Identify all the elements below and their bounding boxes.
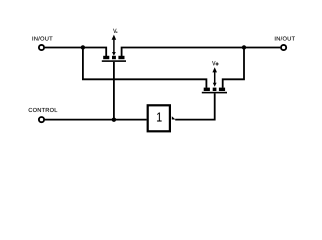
wire CONTROL to inverter input	[45, 119, 147, 121]
terminal CONTROL	[39, 117, 44, 122]
node C junction dot	[112, 118, 116, 122]
transistor Q1 bulk arrow to V-	[112, 35, 117, 56]
transistor Q2 PMOS gate bar	[202, 92, 227, 94]
label V-	[113, 29, 116, 33]
label IN/OUT left	[33, 36, 53, 40]
wire NMOS drain to right IN/OUT	[122, 48, 281, 57]
transistor Q2 bulk arrow to V+	[212, 67, 217, 86]
node A junction dot	[81, 45, 85, 49]
label IN/OUT right	[275, 36, 295, 40]
inverter U1 box	[148, 105, 170, 131]
label CONTROL	[29, 108, 58, 112]
terminal IN/OUT right	[281, 45, 286, 50]
wire node A down and across to PMOS source	[83, 48, 206, 88]
inverter U1 negation wedge	[172, 116, 176, 119]
wire Q1 gate down to control line	[113, 62, 115, 120]
transistor Q1 NMOS gate bar	[102, 60, 126, 62]
transistor Q2 PMOS contacts	[204, 88, 225, 91]
wire left IN/OUT to NMOS source	[45, 48, 106, 57]
wire node B down and across to PMOS drain	[223, 48, 244, 88]
transistor Q1 NMOS contacts	[103, 56, 124, 59]
inverter U1 label 1	[157, 113, 162, 122]
terminal IN/OUT left	[39, 45, 44, 50]
label V+	[212, 61, 215, 65]
wire Q2 gate down to inverter output	[175, 93, 215, 119]
node B junction dot	[242, 45, 246, 49]
